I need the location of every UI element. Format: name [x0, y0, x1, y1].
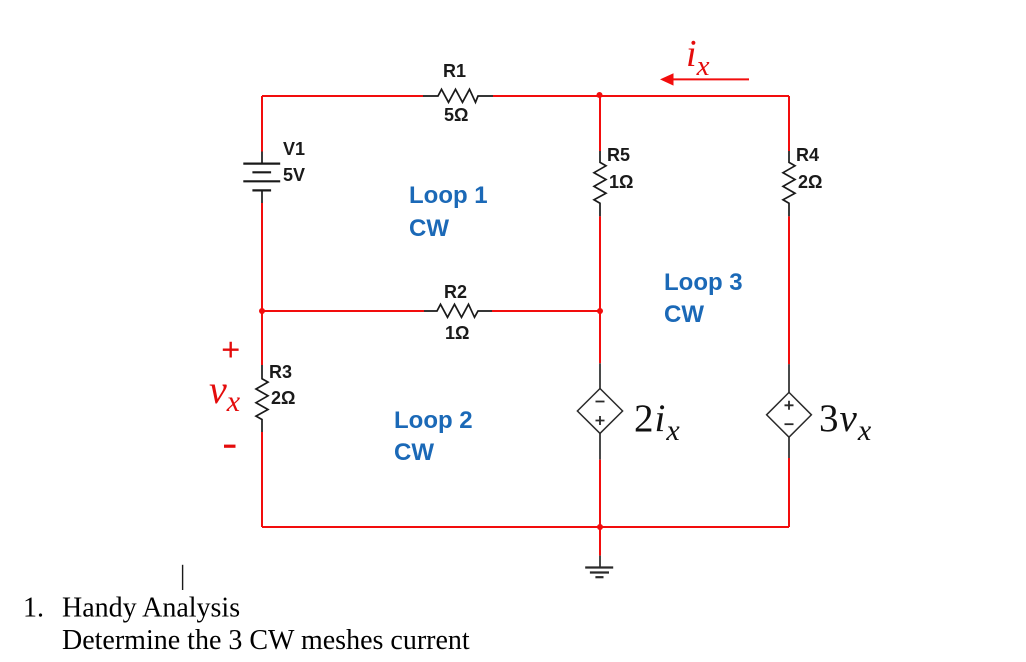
wire middle branch lower — [599, 460, 601, 527]
label vx polarity plus — [221, 332, 240, 369]
current arrow ix — [660, 73, 749, 85]
wire left branch middle — [261, 203, 263, 365]
svg-text:CW: CW — [409, 215, 449, 242]
dependent source 3vx diamond — [767, 364, 812, 458]
ground stem wire — [599, 527, 601, 556]
label vx polarity minus — [224, 445, 236, 448]
svg-text:5Ω: 5Ω — [444, 105, 468, 125]
label 3vx — [819, 397, 872, 447]
svg-text:2Ω: 2Ω — [798, 172, 822, 192]
resistor R2 — [424, 282, 492, 343]
label Loop 3 CW — [664, 269, 743, 328]
svg-text:2Ω: 2Ω — [271, 388, 295, 408]
caption line 1 — [23, 593, 240, 624]
voltage source V1 5V — [243, 139, 305, 203]
caption line 2 — [62, 625, 470, 656]
label Loop 2 CW — [394, 407, 473, 466]
dependent source 2ix diamond — [577, 363, 622, 459]
ground — [585, 556, 613, 578]
wire top from node left-top to node right-top — [262, 95, 789, 97]
svg-text:R4: R4 — [796, 145, 819, 165]
svg-text:ix: ix — [686, 33, 710, 82]
svg-text:1Ω: 1Ω — [445, 323, 469, 343]
wire middle horizontal — [262, 310, 600, 312]
resistor R4 — [783, 145, 822, 216]
svg-text:+: + — [221, 332, 240, 369]
wire left branch lower — [261, 432, 263, 527]
svg-text:Loop 1: Loop 1 — [409, 182, 488, 209]
wire right branch upper — [788, 96, 790, 151]
text cursor bar — [182, 565, 184, 590]
svg-text:3vx: 3vx — [819, 397, 872, 447]
svg-text:1Ω: 1Ω — [609, 172, 633, 192]
resistor R1 — [423, 61, 493, 125]
wire left branch upper — [261, 96, 263, 152]
wire right branch center — [788, 216, 790, 364]
wire middle branch center — [599, 216, 601, 363]
node junction bottom (600,527) — [597, 524, 603, 530]
wire right branch lower — [788, 458, 790, 527]
svg-text:R3: R3 — [269, 362, 292, 382]
svg-text:5V: 5V — [283, 165, 305, 185]
svg-text:2ix: 2ix — [634, 397, 681, 447]
label Loop 1 CW — [409, 182, 488, 242]
node junction left middle (262,311) — [259, 308, 265, 314]
svg-text:R1: R1 — [443, 61, 466, 81]
resistor R5 — [594, 145, 633, 216]
label vx — [209, 367, 241, 418]
svg-text:R2: R2 — [444, 282, 467, 302]
node junction top (600,96) — [597, 92, 603, 98]
resistor R3 — [256, 362, 295, 432]
wire bottom — [262, 526, 789, 528]
svg-text:Loop 3: Loop 3 — [664, 269, 743, 296]
wire middle branch upper — [599, 96, 601, 151]
svg-text:Determine the 3 CW meshes curr: Determine the 3 CW meshes current — [62, 625, 470, 656]
svg-text:1.: 1. — [23, 593, 44, 624]
svg-text:vx: vx — [209, 367, 241, 418]
svg-text:Handy Analysis: Handy Analysis — [62, 593, 240, 624]
svg-text:V1: V1 — [283, 139, 305, 159]
svg-text:R5: R5 — [607, 145, 630, 165]
label ix — [686, 33, 710, 82]
svg-text:CW: CW — [664, 301, 704, 328]
node junction right middle (600,311) — [597, 308, 603, 314]
label 2ix — [634, 397, 681, 447]
svg-text:CW: CW — [394, 439, 434, 466]
svg-text:Loop 2: Loop 2 — [394, 407, 473, 434]
